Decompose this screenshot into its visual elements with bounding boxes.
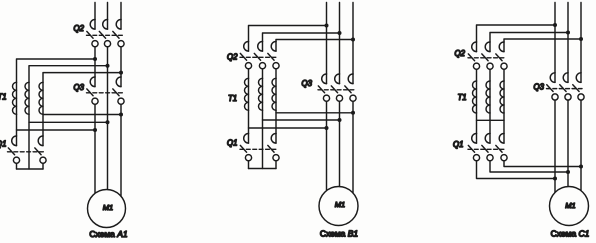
svg-text:Схема В1: Схема В1 xyxy=(320,228,359,238)
wire T1 winding3 bottom to Q1 (scheme C) xyxy=(503,113,505,134)
svg-text:M1: M1 xyxy=(103,203,113,212)
wire winding bottoms bus (scheme C) xyxy=(477,119,505,121)
link Q3 (scheme C) (dashed mechanical link) xyxy=(547,88,583,90)
link Q3 (scheme A) (dashed mechanical link) xyxy=(87,92,123,94)
wire T1 tap1 to L1 (scheme A) xyxy=(17,129,96,131)
wire R3 Q3 to motor (scheme B) xyxy=(352,101,354,193)
contactor Q1 pole 1 (scheme A) xyxy=(8,136,19,163)
contactor Q3 pole 3 (scheme C) xyxy=(573,73,584,100)
wire L3 Q2 to Q3 (scheme A) xyxy=(120,47,122,77)
wire Q1 pole1 to S1 (scheme C) xyxy=(477,161,556,179)
link Q1 (scheme A) (dashed mechanical link) xyxy=(8,151,45,153)
junction node C-j2 xyxy=(566,170,570,174)
wire supply R1 (scheme B) xyxy=(326,3,328,75)
wire T1 tap2 to L2 (scheme A) xyxy=(29,121,108,123)
wire Q2 pole2 to T1 winding2 (scheme B) xyxy=(262,69,264,79)
wire Q1 pole2 to star bus (scheme A) xyxy=(42,163,44,169)
contactor Q2 pole 1 (scheme A) xyxy=(87,20,98,47)
junction node A-L3 tap xyxy=(119,71,123,75)
contactor Q3 pole 1 (scheme B) xyxy=(318,74,329,101)
svg-text:Схема С1: Схема С1 xyxy=(551,228,590,238)
link Q2 (scheme B) (dashed mechanical link) xyxy=(240,56,278,58)
transformer T1 winding 2 (scheme C) xyxy=(486,81,490,113)
wire supply S2 (scheme C) xyxy=(567,3,569,73)
transformer T1 winding 2 (scheme A) xyxy=(25,82,29,114)
wire tap S1 to Q2 pole1 (scheme C) xyxy=(477,25,556,42)
junction node C-j3 xyxy=(579,165,583,169)
junction node A-tap3 xyxy=(119,113,123,117)
transformer T1 winding 1 (scheme B) xyxy=(245,78,249,110)
wire T1 winding2 bottom to Q1 (scheme C) xyxy=(489,113,491,134)
junction node B-mtap2 xyxy=(338,118,342,122)
svg-text:T1: T1 xyxy=(0,93,7,102)
svg-text:Схема А1: Схема А1 xyxy=(89,229,128,239)
svg-text:T1: T1 xyxy=(458,93,467,102)
svg-text:Q2: Q2 xyxy=(227,53,238,62)
transformer T1 winding 3 (scheme B) xyxy=(272,78,276,110)
wire star point bus (scheme A) xyxy=(17,168,44,170)
contactor Q3 pole 3 (scheme B) xyxy=(345,74,356,101)
wire S3 Q3 to motor (scheme C) xyxy=(580,100,582,191)
contactor Q2 pole 2 (scheme A) xyxy=(99,20,110,47)
wire L3 Q3 to motor (scheme A) xyxy=(120,104,122,196)
wire Q1 pole3 to S3 (scheme C) xyxy=(504,161,581,167)
wire star point bus (scheme B) xyxy=(249,168,277,170)
transformer T1 winding 3 (scheme A) xyxy=(39,82,43,114)
svg-text:Q2: Q2 xyxy=(455,49,466,58)
wire T1 winding1 bottom to Q1 (scheme C) xyxy=(476,113,478,134)
wire supply L2 (scheme A) xyxy=(107,3,109,20)
junction node B-tap1 xyxy=(325,24,329,28)
wire T1 tap1 to R1 (scheme B) xyxy=(249,127,327,129)
contactor Q3 pole 1 (scheme C) xyxy=(547,73,558,100)
transformer T1 winding 3 (scheme C) xyxy=(500,81,504,113)
junction node A-tap1 xyxy=(93,128,97,132)
wire Q2 pole3 to T1 winding3 (scheme C) xyxy=(503,69,505,81)
wire Q2 pole2 to T1 winding2 (scheme C) xyxy=(489,69,491,81)
contactor Q2 pole 2 (scheme B) xyxy=(254,42,265,69)
contactor Q3 pole 2 (scheme B) xyxy=(331,74,342,101)
svg-text:Q3: Q3 xyxy=(74,83,85,92)
contactor Q2 pole 1 (scheme C) xyxy=(468,42,479,69)
wire tap S3 to Q2 pole3 (scheme C) xyxy=(504,39,581,42)
contactor Q2 pole 3 (scheme A) xyxy=(113,20,124,47)
wire supply L1 (scheme A) xyxy=(94,3,96,20)
svg-text:M1: M1 xyxy=(565,201,575,210)
wire T1 tap2 to R2 (scheme B) xyxy=(263,119,340,121)
transformer T1 winding 1 (scheme A) xyxy=(13,82,17,114)
wire Q1 pole1 to star bus (scheme A) xyxy=(16,163,18,169)
wire T1 winding2 bottom to star bus (scheme B) xyxy=(262,110,264,168)
wire tap S2 to Q2 pole2 (scheme C) xyxy=(490,33,568,43)
junction node B-mtap1 xyxy=(325,126,329,130)
wire supply R2 (scheme B) xyxy=(339,3,341,75)
contactor Q2 pole 3 (scheme B) xyxy=(268,42,279,69)
contactor Q3 pole 2 (scheme A) xyxy=(113,77,124,104)
contactor Q1 pole 2 (scheme C) xyxy=(482,134,493,161)
wire T1 tap3 to R3 (scheme B) xyxy=(276,112,353,114)
contactor Q2 pole 1 (scheme B) xyxy=(240,42,251,69)
link Q3 (scheme B) (dashed mechanical link) xyxy=(318,89,354,91)
junction node C-tap3 xyxy=(579,37,583,41)
contactor Q1 pole 2 (scheme A) xyxy=(35,136,46,163)
wire Q2 pole1 to T1 winding1 (scheme C) xyxy=(476,69,478,81)
svg-text:Q1: Q1 xyxy=(227,139,237,148)
transformer T1 winding 1 (scheme C) xyxy=(473,81,477,113)
wire T1 tap3 to L3 (scheme A) xyxy=(43,114,121,116)
wire Q2 pole3 to T1 winding3 (scheme B) xyxy=(275,69,277,79)
wire T1 winding1 bottom to Q1 (scheme B) xyxy=(248,110,250,133)
junction node C-j1 xyxy=(553,177,557,181)
wire L1 Q2 to Q3 (scheme A) xyxy=(94,47,96,77)
junction node A-tap2 xyxy=(106,120,110,124)
wire T1 winding1 bottom to Q1 (scheme A) xyxy=(16,114,18,136)
wire Q1 pole1 to star bus (scheme B) xyxy=(248,161,250,169)
contactor Q3 pole 2 (scheme C) xyxy=(560,73,571,100)
wire tap R3 to Q2 pole3 (scheme B) xyxy=(276,40,353,42)
motor M1 (scheme A) (motor circle) xyxy=(88,190,126,228)
link Q1 (scheme C) (dashed mechanical link) xyxy=(468,148,506,150)
svg-text:M1: M1 xyxy=(335,200,345,209)
wire tap R1 to Q2 pole1 (scheme B) xyxy=(249,26,327,42)
wire L2 Q2 to motor (scheme A) xyxy=(107,47,109,190)
contactor Q1 pole 1 (scheme C) xyxy=(468,134,479,161)
junction node B-tap3 xyxy=(351,38,355,42)
svg-text:Q1: Q1 xyxy=(453,140,463,149)
wire tap L1 to T1 winding1 top (scheme A) xyxy=(17,59,96,82)
svg-text:Q3: Q3 xyxy=(534,83,545,92)
wire tap R2 to Q2 pole2 (scheme B) xyxy=(263,33,340,42)
wire supply S1 (scheme C) xyxy=(554,3,556,73)
contactor Q1 pole 1 (scheme B) xyxy=(240,134,251,161)
junction node A-L1 tap xyxy=(93,57,97,61)
link Q2 (scheme C) (dashed mechanical link) xyxy=(468,57,506,59)
svg-text:Q1: Q1 xyxy=(0,140,6,149)
wire Q1 pole2 to S2 (scheme C) xyxy=(490,161,568,172)
link Q1 (scheme B) (dashed mechanical link) xyxy=(240,148,277,150)
svg-text:Q2: Q2 xyxy=(74,24,85,33)
wire T1 winding3 bottom to Q1 (scheme B) xyxy=(275,110,277,133)
wire supply R3 (scheme B) xyxy=(352,3,354,75)
junction node C-tap2 xyxy=(566,31,570,35)
wire supply S3 (scheme C) xyxy=(580,3,582,73)
svg-text:T1: T1 xyxy=(228,94,237,103)
junction node C-tap1 xyxy=(553,23,557,27)
wire R2 Q3 to motor (scheme B) xyxy=(339,101,341,186)
wire R1 Q3 to motor (scheme B) xyxy=(326,101,328,190)
contactor Q1 pole 2 (scheme B) xyxy=(268,134,279,161)
link Q2 (scheme A) (dashed mechanical link) xyxy=(87,34,123,36)
junction node B-tap2 xyxy=(338,31,342,35)
wire supply L3 (scheme A) xyxy=(120,3,122,20)
wire Q2 pole1 to T1 winding1 (scheme B) xyxy=(248,69,250,79)
wire tap L3 to T1 winding3 top (scheme A) xyxy=(43,73,121,83)
wire S2 Q3 to motor (scheme C) xyxy=(567,100,569,187)
contactor Q2 pole 3 (scheme C) xyxy=(496,42,507,69)
wire Q1 pole2 to star bus (scheme B) xyxy=(275,161,277,169)
contactor Q1 pole 3 (scheme C) xyxy=(496,134,507,161)
motor M1 (scheme C) (motor circle) xyxy=(550,187,589,226)
wire T1 winding3 bottom to Q1 (scheme A) xyxy=(42,114,44,136)
contactor Q3 pole 1 (scheme A) xyxy=(87,77,98,104)
wire tap L2 to T1 winding2 top (scheme A) xyxy=(29,66,108,83)
transformer T1 winding 2 (scheme B) xyxy=(259,78,263,110)
contactor Q2 pole 2 (scheme C) xyxy=(482,42,493,69)
junction node B-mtap3 xyxy=(351,111,355,115)
svg-text:Q3: Q3 xyxy=(302,79,313,88)
wire L1 Q3 to motor (scheme A) xyxy=(94,104,96,193)
wire T1 winding2 bottom to star bus (scheme A) xyxy=(28,114,30,169)
wire S1 Q3 to motor (scheme C) xyxy=(554,100,556,192)
junction node A-L2 tap xyxy=(106,64,110,68)
motor M1 (scheme B) (motor circle) xyxy=(319,187,358,226)
